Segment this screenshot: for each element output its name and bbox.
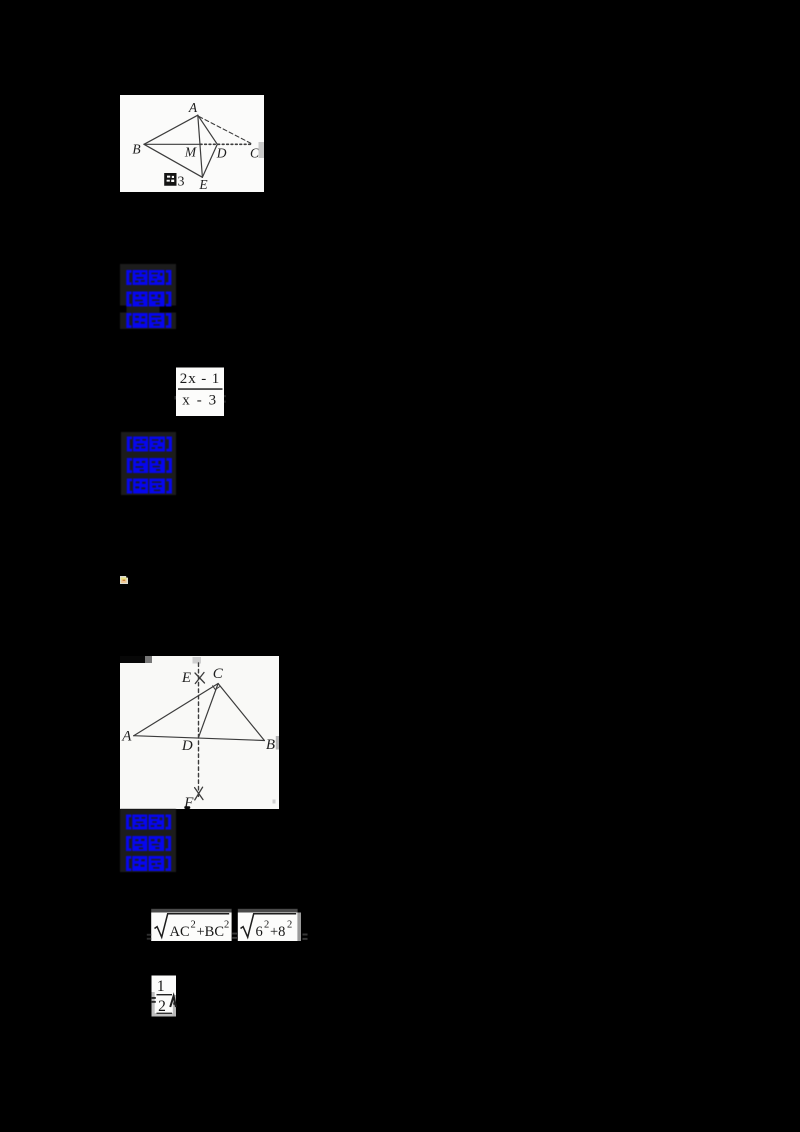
- svg-text:1: 1: [157, 978, 165, 995]
- answer block 1 (【考点】【分析】【解答】): [120, 264, 176, 329]
- small image icon: [119, 575, 129, 585]
- wire line A-E through M: [198, 115, 203, 177]
- X mark top: [195, 672, 205, 683]
- equals between boxes: [232, 933, 237, 935]
- gray block at top of dashed line: [193, 657, 202, 664]
- svg-text:B: B: [266, 737, 275, 753]
- answer block 2: [121, 432, 176, 495]
- svg-text:AC: AC: [170, 924, 190, 940]
- svg-text:E: E: [198, 177, 208, 192]
- svg-text:2: 2: [191, 920, 196, 931]
- white box sqrt(6^2+8^2): [238, 913, 298, 942]
- equals at left: [151, 997, 156, 999]
- figure panel 2 (triangle ABC with D, dashed EF): [120, 656, 279, 809]
- gray edge artifact: [259, 142, 265, 158]
- svg-text:2: 2: [287, 920, 292, 931]
- dashed line E-F vertical: [198, 663, 200, 797]
- wire line A-B: [134, 735, 265, 740]
- svg-text:A: A: [121, 728, 132, 744]
- clipped glyph at right edge: [170, 996, 176, 1007]
- wire line B-C: [218, 683, 264, 740]
- fraction bar: [157, 994, 173, 995]
- svg-text:D: D: [216, 146, 227, 161]
- fraction (2x-1)/(x-3) box: [174, 367, 226, 417]
- white box sqrt(AC^2+BC^2): [151, 913, 231, 942]
- X mark bottom: [195, 787, 203, 800]
- dashed line A-C: [199, 117, 253, 145]
- svg-text:3: 3: [178, 175, 185, 190]
- wire line D-E: [202, 144, 217, 177]
- svg-text:A: A: [188, 100, 198, 115]
- gray strip above boxes: [151, 909, 231, 913]
- right angle mark at C: [213, 685, 220, 689]
- svg-text:D: D: [181, 738, 193, 754]
- equals at far left: [147, 934, 151, 936]
- answer block 3: [120, 809, 176, 872]
- svg-text:6: 6: [256, 924, 263, 940]
- wire line B-M: [144, 143, 200, 145]
- svg-text:C: C: [213, 666, 224, 682]
- dark bar artifact top-left: [120, 656, 145, 663]
- svg-text:M: M: [184, 145, 197, 160]
- wire line A-C: [134, 683, 218, 735]
- gray edge artifacts right: [276, 736, 279, 750]
- half fraction box: [145, 973, 190, 1021]
- hidden defs: blue pixelated CJK label lines: [0, 0, 1, 1]
- wire line A-D: [198, 115, 218, 144]
- svg-text:+BC: +BC: [197, 924, 225, 940]
- radical sign 1: [155, 914, 230, 937]
- wire line B-E: [144, 144, 202, 177]
- sqrt formula row: [145, 908, 310, 946]
- equals at far right: [303, 934, 308, 936]
- wire line D-C: [198, 683, 218, 738]
- svg-text:2: 2: [224, 920, 229, 931]
- svg-text:E: E: [181, 670, 191, 686]
- caption 图3: [164, 173, 184, 190]
- dotted line M-C: [200, 143, 253, 145]
- wire line B-A: [144, 115, 198, 144]
- gray shading bottom: [152, 1013, 177, 1017]
- gray strip right of box2: [298, 913, 301, 942]
- figure panel 图3 (kite ABED with M, dashed C): [120, 95, 264, 192]
- svg-text:2: 2: [158, 998, 166, 1015]
- underline under 2: [157, 1013, 173, 1014]
- svg-text:C: C: [250, 146, 260, 161]
- edge tick marks: [175, 396, 177, 400]
- svg-text:B: B: [132, 142, 140, 157]
- svg-text:2x - 1: 2x - 1: [180, 371, 220, 387]
- svg-text:x - 3: x - 3: [182, 393, 218, 409]
- svg-text:2: 2: [264, 920, 269, 931]
- black blob bottom edge: [184, 806, 190, 809]
- radical sign 2: [241, 914, 297, 937]
- svg-text:+8: +8: [270, 924, 285, 940]
- fraction bar: [178, 388, 223, 390]
